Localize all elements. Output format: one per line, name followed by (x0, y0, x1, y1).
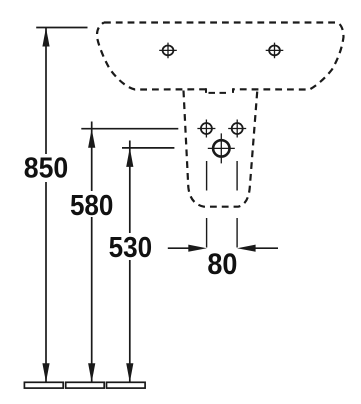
tap hole right (crosshair) (266, 43, 284, 59)
arrowheads (42, 28, 255, 383)
floor symbol middle (66, 382, 105, 388)
extension line 530 ref (122, 147, 174, 149)
arrow 580 top (88, 129, 95, 148)
arrow 530 bottom (126, 363, 133, 382)
floor symbol left (24, 382, 63, 388)
arrow 530 top (126, 148, 133, 167)
80 extension lines (206, 161, 208, 248)
arrow 580 bottom (88, 363, 95, 382)
floor symbol right (107, 382, 146, 388)
drain notch below basin (206, 88, 233, 93)
dimension line 530 (129, 141, 131, 383)
arrow 850 bottom (42, 363, 49, 382)
pedestal fixing hole right (228, 120, 246, 138)
extension line top (850 ref) (36, 27, 87, 29)
arrow 80 left (points right) (188, 245, 207, 252)
svg-text:80: 80 (207, 248, 237, 281)
svg-text:580: 580 (70, 190, 114, 222)
pedestal outline (dashed) (184, 91, 258, 207)
dimension line 580 (91, 122, 93, 383)
dimension line 850 (45, 28, 47, 383)
washbasin outline (dashed) (97, 23, 344, 90)
svg-text:530: 530 (109, 232, 153, 264)
tap hole left (crosshair) (159, 43, 177, 59)
80 dimension lines (168, 247, 278, 249)
extension line 580 ref (81, 128, 178, 130)
arrow 850 top (42, 28, 49, 47)
pedestal fixing hole left (197, 120, 215, 138)
arrow 80 right (points left) (237, 245, 256, 252)
svg-text:850: 850 (24, 153, 69, 185)
drain hole (large crosshair circle) (208, 133, 235, 163)
